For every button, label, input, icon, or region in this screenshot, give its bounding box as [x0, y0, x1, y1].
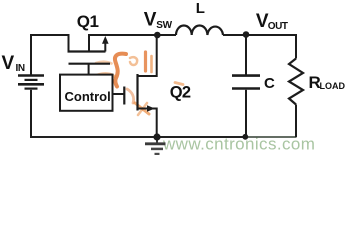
svg-text:C: C — [264, 75, 275, 92]
svg-text:OUT: OUT — [268, 21, 288, 32]
battery V_IN plate 1 (long) — [18, 74, 44, 77]
node V_SW dot — [154, 32, 161, 39]
svg-text:SW: SW — [156, 20, 172, 31]
orange watermark stroke C3 (small loop) — [130, 57, 137, 65]
wire: resistor bottom to ground rail — [295, 105, 297, 138]
wire: bottom ground rail — [30, 136, 248, 138]
orange watermark stroke G (atop Q2 label) — [175, 83, 183, 85]
transistor Q1 arrow — [104, 42, 106, 52]
battery plate 3 (long) — [18, 83, 44, 86]
wire: V_OUT down to capacitor — [245, 35, 247, 75]
orange watermark stroke D (below control near Q2 gate) — [127, 89, 134, 103]
orange watermark stroke B (along gate bar right) — [96, 62, 112, 64]
transistor Q2 drain wire up to V_SW — [138, 34, 157, 76]
wire: capacitor to ground rail — [245, 90, 247, 137]
battery plate 4 (short) — [25, 87, 38, 89]
svg-text:L: L — [196, 0, 205, 17]
wire: top-left rail from battery to Q1 drain — [30, 34, 69, 36]
capacitor C top plate — [232, 74, 260, 77]
resistor R_LOAD zigzag — [289, 59, 303, 105]
svg-text:Q1: Q1 — [77, 12, 99, 31]
svg-text:LOAD: LOAD — [320, 81, 346, 91]
orange watermark stroke F (on box top right) — [96, 74, 114, 77]
wire: control to Q2 gate — [113, 93, 125, 95]
node dot capacitor-ground junction — [242, 134, 248, 140]
wire: Q1 gate stem to control — [88, 64, 90, 75]
wire: left vertical battery bottom to ground rail — [30, 90, 32, 138]
ground symbol bar 3 — [155, 153, 160, 155]
orange watermark stroke C2 — [150, 56, 153, 72]
transistor Q1 gate bar — [69, 63, 111, 65]
transistor Q1 source leg — [88, 34, 90, 52]
orange watermark stroke E2 — [138, 103, 147, 115]
transistor Q2 gate bar — [123, 87, 125, 105]
wire: left vertical battery top — [30, 34, 32, 75]
transistor Q1 drain leg — [68, 34, 70, 52]
transistor Q1 channel — [68, 50, 106, 52]
node V_OUT dot — [243, 31, 250, 38]
orange watermark stroke C1 (vertical right of control) — [144, 52, 147, 71]
wire: right corner down to resistor — [295, 34, 297, 59]
transistor Q2 channel — [136, 74, 138, 111]
ground symbol bar 1 — [145, 142, 166, 145]
svg-text:V: V — [2, 53, 15, 74]
ground symbol stem — [156, 137, 158, 143]
wire: inductor to V_OUT corner — [223, 34, 297, 36]
node dot ground junction — [153, 133, 160, 140]
ground symbol bar 2 — [151, 148, 163, 151]
svg-text:Q2: Q2 — [170, 84, 191, 102]
svg-text:Control: Control — [65, 89, 111, 104]
transistor Q2 arrow — [147, 105, 155, 112]
svg-text:V: V — [144, 10, 157, 31]
inductor L coil — [176, 26, 223, 36]
capacitor C bottom plate — [232, 87, 260, 90]
orange watermark stroke E1 (diagonal near Q2 arrow) — [135, 103, 149, 114]
battery plate 2 (short) — [25, 79, 38, 81]
control block — [60, 75, 113, 111]
svg-text:IN: IN — [16, 63, 25, 74]
transistor Q2 source wire down to ground rail — [138, 109, 157, 138]
orange watermark stroke A (5-like vertical near control top) — [115, 54, 126, 87]
wire: top rail from Q1 source to inductor — [88, 34, 176, 36]
